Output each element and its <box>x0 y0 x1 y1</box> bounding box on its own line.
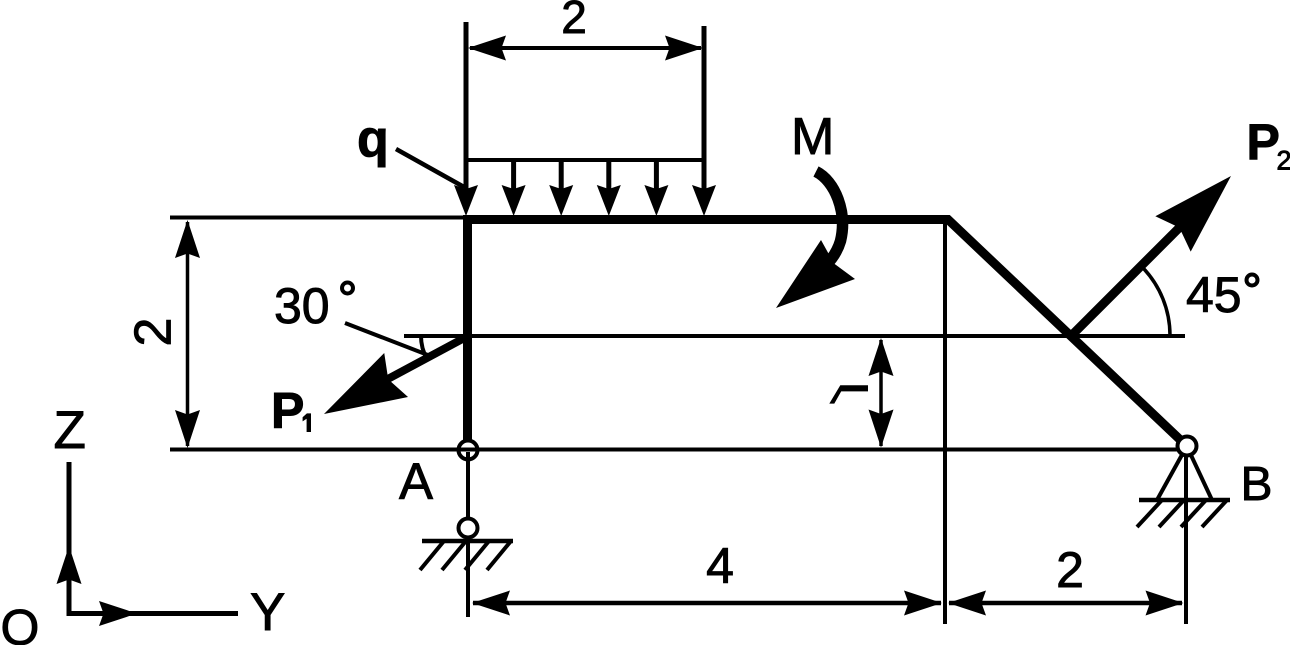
svg-text:B: B <box>1241 458 1273 511</box>
svg-text:P: P <box>271 383 304 439</box>
svg-text:q: q <box>357 110 389 168</box>
svg-text:Y: Y <box>250 583 285 642</box>
svg-text:Z: Z <box>54 401 86 460</box>
svg-text:2: 2 <box>561 0 587 43</box>
svg-text:A: A <box>399 453 433 510</box>
svg-text:2: 2 <box>1056 542 1084 598</box>
svg-text:2: 2 <box>1277 146 1290 176</box>
svg-text:30: 30 <box>274 278 330 334</box>
svg-text:45: 45 <box>1186 267 1242 323</box>
svg-text:O: O <box>1 600 40 645</box>
svg-text:4: 4 <box>706 538 734 594</box>
svg-text:2: 2 <box>125 318 183 347</box>
svg-text:M: M <box>791 108 834 166</box>
svg-text:P: P <box>1247 114 1280 170</box>
